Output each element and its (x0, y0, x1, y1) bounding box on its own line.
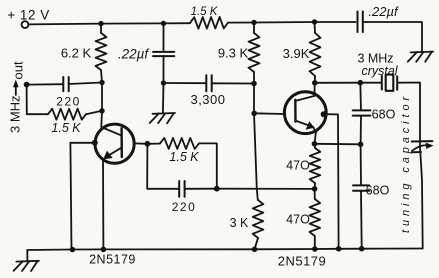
capacitor .22uf top right (358, 12, 363, 33)
wire 1.5K to corner (199, 143, 217, 188)
capacitor 220 feedback (179, 181, 184, 197)
Q2 base bar (294, 100, 297, 122)
svg-text:2N5179: 2N5179 (89, 253, 136, 267)
wire tuning cap to rail (420, 147, 423, 249)
label tuning capacitor (400, 93, 412, 233)
node output (24, 82, 30, 88)
Q1 collector lead (101, 127, 121, 136)
svg-text:3,300: 3,300 (190, 92, 225, 107)
crystal Y1 (382, 75, 397, 91)
node Q2 collector (312, 80, 318, 86)
capacitor .22uf middle (153, 52, 174, 56)
resistor 3K (253, 200, 264, 238)
transistor Q2 circle (284, 92, 326, 134)
wire ground stub (162, 83, 165, 113)
Q2 emitter lead (296, 121, 317, 133)
wire 3.9K top lead (314, 22, 317, 33)
svg-text:68O: 68O (372, 108, 396, 122)
svg-text:6.2 K: 6.2 K (61, 46, 92, 61)
svg-text:47O: 47O (286, 159, 310, 173)
wire output to cap (27, 83, 64, 85)
node rail 680 (359, 246, 365, 252)
Q1 case lead dot (92, 140, 98, 146)
wire Q2 emitter down (315, 133, 316, 144)
capacitor tuning (412, 141, 434, 152)
wire .22uf to ground node (163, 56, 165, 83)
ground bottom left (14, 261, 39, 271)
node Q2 base junction (251, 111, 257, 117)
wire 9.3K to node (253, 72, 255, 84)
Q1 base bar (120, 128, 123, 157)
terminal +12V (22, 21, 29, 28)
wire Q1 emitter down (102, 161, 104, 250)
svg-text:2N5179: 2N5179 (278, 254, 327, 269)
resistor 470 upper (310, 148, 321, 183)
svg-text:220: 220 (172, 200, 197, 214)
wire 470 top lead (314, 144, 317, 148)
wire Q2 base lead (254, 112, 285, 115)
wire .22uf top lead (163, 23, 165, 50)
resistor 6.2K (96, 33, 107, 70)
node rail Q1 emitter (101, 247, 107, 253)
svg-text:9.3 K: 9.3 K (218, 46, 249, 61)
ground top right (408, 52, 433, 62)
wire crystal to right edge (397, 83, 420, 147)
resistor 9.3K (249, 33, 260, 72)
wire emitter to 680 column (315, 143, 361, 146)
wire 3K to rail (255, 238, 259, 249)
wire to 680 lower (360, 144, 362, 185)
node emitter top (312, 141, 318, 147)
svg-text:crystal: crystal (361, 64, 398, 78)
wire 680 to node (360, 116, 362, 145)
node feedback junction (214, 186, 220, 192)
wire collector to crystal (315, 82, 382, 84)
wire 220 to node (185, 188, 217, 190)
node rail 470 (312, 246, 318, 252)
wire Q1 case to ground (70, 143, 94, 250)
svg-text:1.5 K: 1.5 K (191, 6, 219, 18)
wire 6.2K top lead (100, 24, 102, 33)
wire cap to right corner (363, 22, 422, 52)
svg-text:3 K: 3 K (230, 216, 249, 230)
wire base down (147, 144, 179, 189)
node divider (312, 186, 318, 192)
wire 3.9K to collector node (314, 76, 316, 83)
node top of 6.2K (98, 21, 103, 26)
node rail Q1 case (70, 247, 76, 253)
node bypass ground (161, 80, 166, 85)
wire 6.2K to node (101, 70, 102, 127)
node 3300 junction (251, 81, 257, 87)
wire Q2 case to ground (324, 114, 339, 249)
resistor 1.5K feedback (160, 138, 199, 149)
svg-text:3.9K: 3.9K (283, 46, 310, 61)
svg-text:1.5 K: 1.5 K (169, 150, 199, 164)
wire base column (254, 84, 258, 201)
wire cap to collector node (69, 83, 102, 85)
svg-text:.22µf: .22µf (368, 4, 399, 19)
capacitor 680 lower (353, 185, 369, 190)
arrow output (13, 80, 19, 96)
svg-text:.22µf: .22µf (118, 47, 150, 62)
node rail Q2 case (336, 246, 342, 252)
wire 9.3K top lead (253, 23, 255, 34)
node collector top cap (99, 80, 104, 85)
wire res to collector node (86, 111, 102, 114)
wire 3300 to base column (212, 82, 254, 84)
node crystal junction (358, 80, 364, 86)
capacitor 220 top left (63, 77, 68, 91)
wire output down (27, 85, 48, 115)
wire top rail left (28, 23, 190, 24)
Q2 collector lead (295, 83, 314, 101)
svg-text:out: out (11, 61, 26, 79)
node top of .22uf (161, 21, 166, 26)
wire 680 lower to rail (360, 191, 363, 249)
node Q1 base (145, 141, 151, 147)
Q2 case lead dot (321, 111, 327, 117)
node collector res (99, 108, 104, 113)
resistor 470 lower (310, 199, 321, 236)
wire divider to 470 (314, 189, 316, 199)
node rail 3K (252, 247, 258, 253)
ground middle (150, 113, 175, 123)
capacitor 3300 (206, 75, 211, 91)
wire feedback to emitter divider (217, 188, 315, 190)
transistor Q1 circle (95, 124, 134, 163)
svg-text:220: 220 (56, 95, 81, 109)
label 3 MHz crystal (357, 52, 398, 79)
resistor 3.9K (310, 33, 321, 76)
label 3 MHz out (8, 61, 26, 133)
wire crystal node down (359, 83, 362, 110)
wire rail to ground (26, 250, 28, 261)
wire bottom rail (27, 249, 422, 251)
svg-text:1.5 K: 1.5 K (51, 121, 81, 135)
svg-text:47O: 47O (286, 213, 310, 227)
resistor 1.5K top series (190, 17, 228, 29)
svg-text:tuning capacitor: tuning capacitor (400, 93, 412, 233)
wire 470 to rail (314, 236, 316, 249)
wire 470 to node (314, 183, 316, 189)
capacitor 680 upper (353, 110, 371, 115)
svg-text:68O: 68O (366, 184, 390, 198)
wire base to 1.5K (147, 143, 160, 145)
Q1 emitter lead (103, 148, 122, 160)
node 680 column (358, 142, 364, 148)
resistor 1.5K bottom left (48, 109, 86, 120)
wire Q1 base (134, 142, 147, 144)
node top of 3.9K (312, 19, 317, 24)
wire top rail right (228, 21, 356, 24)
wire to 3300 cap (164, 82, 207, 84)
svg-text:+ 12 V: + 12 V (7, 8, 49, 23)
svg-text:3 MHz: 3 MHz (8, 95, 23, 133)
node top of 9.3K (251, 20, 256, 25)
